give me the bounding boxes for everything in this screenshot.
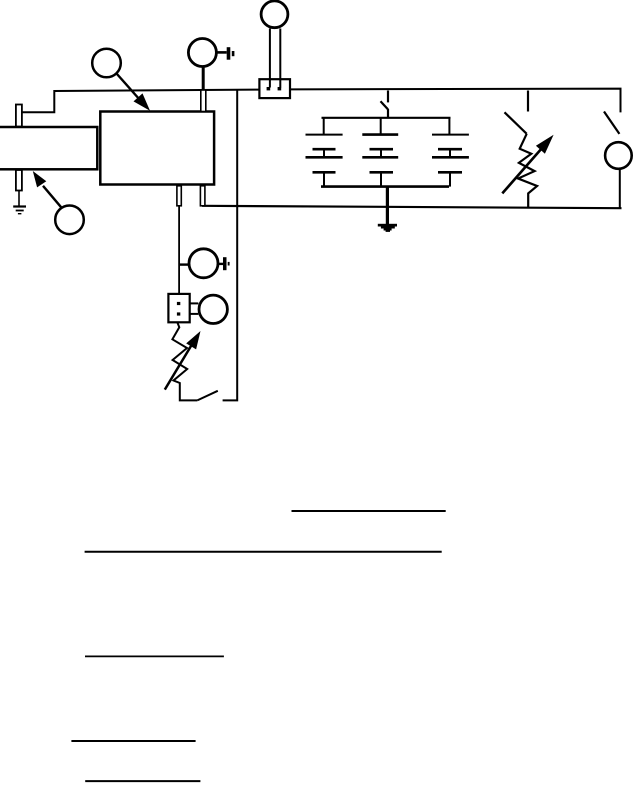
meter M2 lead — [179, 263, 189, 265]
switch S1 blade (right) — [604, 112, 619, 134]
battery cell BT1 (left) — [306, 118, 343, 187]
blank underline B — [85, 551, 442, 553]
rheostat R1 top lead — [527, 91, 529, 112]
relay/connector box K1 — [168, 294, 189, 322]
wire vertical from top bus down to bottom switch contact — [223, 91, 238, 401]
rheostat R1 zigzag element — [518, 134, 537, 207]
terminal bar bottom-right of big box — [200, 186, 205, 206]
blank underline C — [85, 655, 224, 657]
wire top bus left segment with step down to left box terminal — [22, 90, 260, 113]
wire bottom bus — [202, 206, 622, 208]
terminal bar top of left box — [16, 105, 22, 127]
rheostat R2 zigzag element — [172, 322, 197, 400]
callout balloon B (lower left) — [55, 206, 84, 235]
connector J1 box on top bus — [259, 79, 290, 98]
rheostat R1 entry slant — [505, 112, 527, 134]
switch S2 blade (bottom) — [197, 391, 218, 401]
battery top rail — [322, 117, 451, 119]
relay K1 pin dots — [177, 302, 180, 316]
callout balloon C (top, above connector) — [261, 1, 288, 28]
connector J1 wires up to balloon — [270, 29, 280, 88]
battery cell BT2 (middle) — [362, 118, 398, 187]
ground below battery — [378, 187, 397, 232]
battery cell BT3 (right) — [432, 118, 469, 187]
battery bottom rail — [321, 185, 449, 188]
rheostat R2 arrow — [165, 331, 201, 390]
meter M2 circle — [189, 249, 218, 278]
lamp DS1 circle — [605, 142, 632, 169]
rheostat R1 arrow — [502, 135, 553, 194]
meter M2 plug symbol — [218, 257, 230, 270]
meter M1 circle — [188, 39, 216, 67]
meter M1 stem terminal bar between bus and big box — [201, 90, 206, 112]
terminal bar bottom of left box — [16, 170, 22, 191]
wire from big box bottom-left terminal down to relay box — [178, 206, 180, 294]
relay K1 leads to meter M3 — [190, 303, 199, 314]
switch S3 above battery — [381, 91, 389, 118]
arrow from balloon B to left box bottom — [33, 171, 61, 207]
wire lamp DS1 bottom lead — [619, 169, 621, 208]
blank underline E — [85, 780, 200, 782]
wire top bus right segment to right edge — [290, 89, 621, 113]
meter M1 stem above bus — [202, 66, 205, 91]
terminal bar bottom-left of big box — [177, 186, 181, 206]
arrow from balloon A to big box top — [117, 74, 151, 111]
blank underline D — [71, 740, 195, 742]
callout balloon A (top left) — [92, 49, 121, 78]
meter M1 plug symbol — [216, 47, 234, 60]
connector J1 pin dots — [267, 87, 282, 90]
blank underline A — [292, 510, 446, 512]
left box (generator) — [0, 127, 97, 169]
big box (regulator) — [100, 112, 214, 185]
ground below left box — [13, 191, 26, 214]
meter M3 circle — [199, 295, 227, 323]
